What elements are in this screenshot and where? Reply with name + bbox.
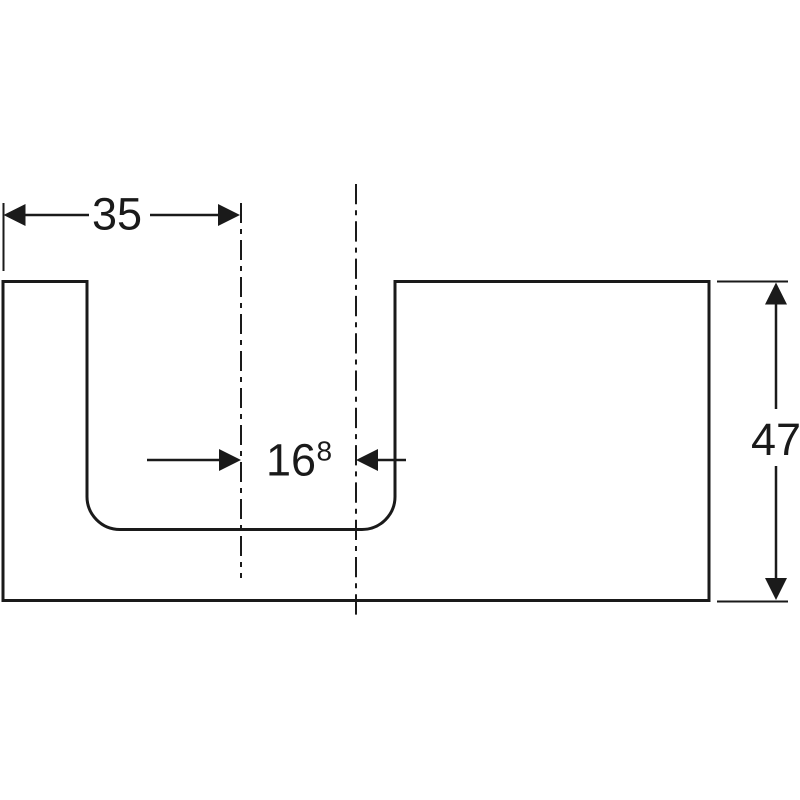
dimension 35: right arrowhead (218, 204, 240, 226)
part outline: worktop cross-section with U cut-out (3, 282, 709, 601)
centerline right (dash-dot) (355, 184, 357, 615)
svg-text:47: 47 (751, 414, 800, 465)
svg-text:35: 35 (92, 189, 142, 240)
dimension 35: line segments (24, 214, 89, 217)
svg-text:16: 16 (266, 435, 316, 486)
extension line bottom for dim 47 (717, 601, 788, 603)
centerline left (dash-dot) (240, 203, 242, 578)
dimension 35: left arrowhead (4, 204, 26, 226)
dimension 47: top arrowhead (765, 283, 787, 305)
svg-text:8: 8 (317, 436, 333, 467)
dimension 16.8: left arrow (tail + head) (147, 459, 220, 462)
extension line left for dim 35 (3, 203, 5, 271)
extension line top for dim 47 (717, 281, 788, 283)
dimension 47: bottom arrowhead (765, 578, 787, 600)
dimension 16.8: right arrow (tail + head) (377, 459, 406, 462)
dimension 47: line segments (775, 303, 778, 409)
